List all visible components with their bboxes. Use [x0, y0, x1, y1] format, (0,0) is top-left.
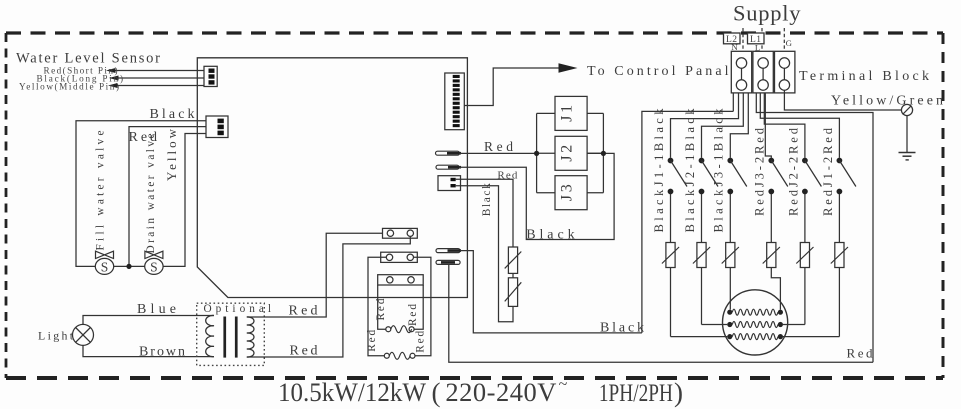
svg-text:Black: Black — [526, 227, 574, 242]
svg-text:): ) — [674, 378, 683, 408]
svg-text:Water Level Sensor: Water Level Sensor — [16, 51, 160, 67]
svg-text:Red: Red — [375, 298, 387, 320]
svg-text:1PH/2PH: 1PH/2PH — [599, 378, 673, 407]
svg-text:N: N — [731, 42, 738, 52]
svg-text:Red: Red — [290, 343, 318, 358]
svg-text:Black: Black — [150, 107, 195, 122]
svg-text:220-240V: 220-240V — [445, 377, 556, 407]
svg-text:Red: Red — [414, 330, 426, 352]
svg-text:J1: J1 — [559, 105, 576, 122]
svg-text:10.5kW/12kW: 10.5kW/12kW — [278, 377, 426, 407]
svg-text:Black: Black — [600, 320, 644, 335]
svg-text:Red: Red — [366, 329, 378, 351]
svg-text:Supply: Supply — [733, 0, 801, 25]
svg-text:Yellow(Middle Pin): Yellow(Middle Pin) — [19, 82, 119, 92]
svg-text:S: S — [101, 259, 109, 274]
svg-text:To Control Panal: To Control Panal — [587, 64, 729, 79]
svg-text:Brown: Brown — [139, 344, 185, 359]
svg-text:Red: Red — [847, 346, 874, 361]
svg-text:(: ( — [432, 378, 441, 408]
svg-text:Yellow: Yellow — [164, 128, 179, 181]
svg-text:S: S — [150, 259, 158, 274]
svg-text:Red: Red — [407, 304, 419, 326]
svg-text:Black: Black — [481, 183, 493, 216]
svg-text:Red: Red — [484, 139, 513, 154]
svg-text:~: ~ — [559, 376, 568, 393]
svg-text:J2: J2 — [559, 145, 576, 162]
svg-text:Red: Red — [289, 303, 318, 318]
svg-text:J3: J3 — [559, 184, 576, 201]
svg-text:G: G — [786, 38, 793, 48]
